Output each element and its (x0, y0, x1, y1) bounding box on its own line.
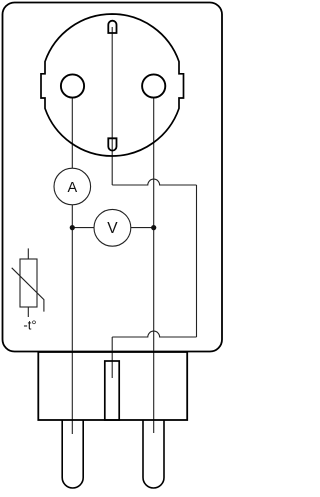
wire: earth drop into center contact (111, 337, 113, 378)
thermistor bottom lead (27, 307, 29, 317)
wire: right (neutral) from right hole to right pin (153, 98, 155, 433)
wire: voltmeter horizontal link (72, 227, 153, 229)
right pin (143, 420, 164, 488)
plug body (38, 352, 187, 420)
left socket hole (61, 74, 84, 97)
ammeter PA (54, 168, 91, 205)
thermistor diagonal stroke (12, 268, 44, 312)
junction dot right (151, 225, 156, 230)
svg-text:-t°: -t° (23, 318, 36, 333)
wire: earth right vertical (196, 185, 198, 337)
wire: earth horizontal with hop over neutral (112, 179, 196, 185)
left pin (62, 420, 83, 488)
right socket hole (142, 74, 165, 97)
thermistor top lead (27, 248, 29, 259)
wire: phase from ammeter down to left pin (71, 205, 73, 434)
thermistor body (20, 259, 37, 307)
wire: earth center vertical from top clip to bend (111, 27, 113, 185)
voltmeter PV (94, 209, 131, 246)
top earth clip (108, 21, 116, 33)
svg-text:V: V (107, 220, 118, 237)
plug center earth contact (105, 361, 119, 420)
wire: earth lower horizontal with hop over neutral (112, 331, 196, 337)
bottom earth clip (108, 138, 116, 150)
svg-text:A: A (67, 180, 77, 196)
junction dot left (70, 225, 75, 230)
adapter body (3, 3, 223, 352)
wire: left (phase) from left hole through ammeter to left pin (71, 98, 73, 168)
socket recess outline (41, 14, 184, 156)
